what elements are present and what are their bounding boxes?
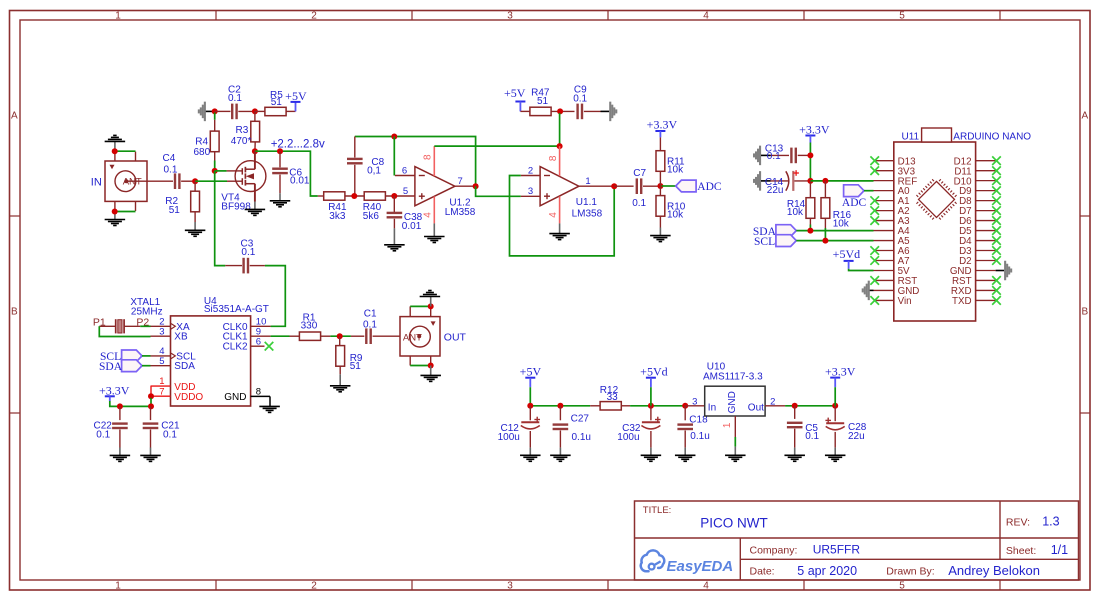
svg-text:+3.3V: +3.3V	[825, 364, 856, 378]
net flag ADC	[676, 180, 696, 192]
svg-text:0.1: 0.1	[163, 430, 177, 441]
wire	[124, 325, 140, 327]
svg-text:LM358: LM358	[572, 208, 603, 219]
wire	[269, 396, 271, 406]
wire	[142, 365, 151, 367]
svg-text:4: 4	[548, 212, 559, 218]
svg-text:3k3: 3k3	[329, 211, 346, 222]
wire	[393, 196, 395, 213]
wire	[824, 181, 826, 198]
svg-text:+3.3V: +3.3V	[99, 384, 130, 398]
wire	[195, 180, 227, 182]
wire	[476, 186, 521, 196]
ground below C18	[675, 454, 696, 456]
chassis ground left of C2	[204, 102, 206, 122]
chassis ground left of C13	[759, 146, 761, 166]
svg-text:7: 7	[457, 176, 462, 187]
svg-text:Vin: Vin	[898, 296, 912, 307]
wire	[150, 386, 152, 396]
pin 8 GND	[251, 395, 270, 397]
ground below C32	[641, 454, 662, 456]
pin 6 CLK2	[251, 345, 265, 347]
pin 1 VDD	[151, 385, 171, 387]
capacitor C1	[365, 328, 367, 344]
ground below C6	[270, 200, 291, 202]
capacitor C14 polarized	[786, 171, 789, 190]
wire	[271, 335, 290, 337]
svg-text:5: 5	[159, 356, 164, 367]
node junction	[212, 108, 218, 114]
wire	[834, 387, 836, 406]
wire	[290, 335, 300, 337]
wire	[215, 170, 227, 172]
connector IN (antenna jack)	[105, 161, 147, 201]
ground below C22	[110, 454, 130, 456]
op-amp U1.1 LM358	[540, 167, 579, 206]
svg-text:0.1: 0.1	[96, 430, 110, 441]
node junction	[252, 108, 258, 114]
frame zone tick marks	[215, 11, 217, 21]
wire	[630, 405, 685, 407]
ground stem above IN	[114, 141, 116, 151]
resistor R5	[265, 107, 286, 115]
svg-text:IN: IN	[91, 177, 102, 189]
EasyEDA logo	[641, 550, 665, 571]
wire	[834, 406, 836, 421]
wire	[373, 335, 419, 337]
svg-text:BF998: BF998	[221, 201, 251, 212]
svg-text:22u: 22u	[848, 431, 865, 442]
wire	[529, 431, 531, 448]
wire top feedback rail	[355, 137, 476, 187]
wire	[194, 212, 196, 222]
pin 3 of U1.1	[521, 195, 540, 197]
svg-text:5: 5	[899, 581, 905, 592]
svg-text:2: 2	[528, 166, 533, 177]
chassis ground at GND left pin	[868, 281, 870, 301]
wire	[339, 336, 341, 345]
node junction	[192, 178, 198, 184]
svg-text:8: 8	[423, 154, 434, 160]
ground stem below C32	[650, 448, 652, 456]
node junction	[807, 228, 813, 234]
svg-text:6: 6	[402, 166, 407, 177]
wire	[684, 431, 686, 448]
wire	[351, 335, 364, 337]
node junction	[807, 152, 813, 158]
wire	[559, 431, 561, 448]
pin 5 SDA	[151, 365, 171, 367]
wire	[761, 154, 771, 156]
wire REF net	[810, 180, 873, 182]
ground stem above OUT	[430, 297, 432, 307]
svg-text:0.1: 0.1	[228, 93, 242, 104]
wire	[659, 171, 661, 186]
wire	[225, 265, 242, 267]
ground stem below C38	[393, 228, 395, 244]
svg-text:Out: Out	[748, 402, 764, 413]
title block frame	[635, 501, 1079, 580]
power +5Vd at C32	[646, 377, 656, 379]
svg-text:Drawn By:: Drawn By:	[886, 566, 934, 578]
pin 9 CLK1	[251, 335, 271, 337]
wire	[354, 137, 356, 158]
wire	[150, 398, 152, 407]
wire	[794, 406, 796, 419]
ground above IN	[105, 140, 126, 142]
svg-text:+3.3V: +3.3V	[799, 122, 830, 136]
svg-text:C27: C27	[571, 413, 590, 424]
svg-text:3: 3	[507, 581, 513, 592]
wire	[354, 165, 356, 196]
svg-text:0.1: 0.1	[164, 165, 178, 176]
svg-text:SCL: SCL	[754, 236, 775, 248]
wire	[115, 150, 136, 152]
ground below U1.1	[549, 233, 570, 235]
node junction	[832, 403, 838, 409]
svg-text:0.1: 0.1	[767, 151, 781, 162]
power +3.3V at R11	[655, 130, 665, 132]
wire feedback loop	[510, 176, 615, 256]
wire	[214, 161, 216, 171]
svg-text:XB: XB	[174, 332, 188, 343]
svg-text:EasyEDA: EasyEDA	[667, 558, 734, 575]
wire	[99, 326, 150, 336]
wire	[659, 216, 661, 227]
wire	[254, 142, 256, 151]
svg-text:GND: GND	[224, 392, 246, 403]
capacitor C6	[272, 168, 288, 170]
wire	[345, 195, 365, 197]
wire	[214, 113, 216, 120]
wire	[140, 325, 150, 327]
svg-text:SDA: SDA	[99, 361, 123, 373]
integrated circuit U4 Si5351A body	[171, 316, 251, 406]
capacitor C8	[347, 158, 363, 160]
svg-text:1/1: 1/1	[1051, 543, 1068, 557]
svg-text:5: 5	[899, 11, 905, 22]
wire	[996, 270, 1005, 272]
svg-text:Sheet:: Sheet:	[1006, 545, 1036, 557]
power +5V at C12	[525, 377, 535, 379]
wire	[621, 405, 630, 407]
svg-text:5k6: 5k6	[363, 211, 380, 222]
power +5Vd at 5V pin	[844, 260, 854, 262]
ground below OUT	[420, 374, 441, 376]
resistor R2	[191, 191, 200, 212]
capacitor C38	[387, 212, 403, 214]
wire	[785, 405, 835, 407]
pin 3 XB	[151, 335, 171, 337]
node junction	[148, 393, 154, 399]
capacitor C32 polarized	[642, 421, 660, 423]
pin 10 CLK0	[251, 325, 271, 327]
wire	[529, 387, 531, 406]
svg-text:0.01: 0.01	[290, 176, 310, 187]
node junction	[428, 303, 434, 309]
ground below C38	[384, 244, 405, 246]
svg-text:8: 8	[548, 155, 559, 161]
capacitor C18	[677, 423, 693, 425]
wire	[206, 110, 215, 112]
chassis ground left of C14	[759, 171, 761, 191]
wire	[181, 180, 195, 182]
wire	[393, 137, 395, 176]
node junction	[391, 193, 397, 199]
wire	[385, 195, 415, 197]
svg-text:Andrey Belokon: Andrey Belokon	[948, 563, 1040, 578]
resistor R11	[656, 151, 665, 172]
resistor R47	[530, 107, 551, 115]
svg-text:ANT: ANT	[403, 332, 422, 343]
pin 1 of U1.1	[579, 185, 612, 187]
capacitor C2	[231, 104, 233, 120]
wire	[685, 405, 705, 407]
ground stem below C21	[150, 448, 152, 456]
wire	[194, 181, 196, 191]
node junction	[557, 108, 563, 114]
svg-text:10k: 10k	[667, 209, 684, 220]
svg-text:Si5351A-A-GT: Si5351A-A-GT	[204, 304, 269, 315]
wire	[530, 405, 590, 407]
resistor R40	[364, 192, 385, 200]
node junction	[117, 403, 123, 409]
svg-text:ADC: ADC	[697, 181, 722, 193]
svg-text:0.1u: 0.1u	[690, 431, 709, 442]
ground below C21	[140, 454, 161, 456]
ground stem below IN	[114, 212, 116, 220]
ground below IN	[105, 219, 126, 221]
wire	[238, 110, 255, 112]
svg-text:0,1: 0,1	[367, 166, 381, 177]
node junction	[252, 148, 258, 154]
capacitor C21	[143, 422, 159, 424]
svg-text:TITLE:: TITLE:	[643, 505, 672, 516]
wire	[410, 365, 431, 367]
node junction	[611, 183, 617, 189]
node junction	[212, 168, 218, 174]
resistor R16	[821, 198, 830, 219]
wire	[662, 185, 676, 187]
svg-text:+5V: +5V	[285, 89, 307, 103]
svg-text:6: 6	[256, 336, 261, 347]
ground stem below C6	[279, 193, 281, 201]
svg-text:51: 51	[169, 205, 181, 216]
no-connect X at CLK2	[265, 342, 274, 351]
svg-text:LM358: LM358	[445, 207, 476, 218]
wire	[255, 110, 265, 112]
node junction	[277, 148, 283, 154]
voltage regulator U10 AMS1117-3.3	[705, 386, 765, 416]
pin 4 SCL	[151, 355, 171, 357]
wire	[214, 152, 216, 161]
svg-text:CLK2: CLK2	[223, 342, 248, 353]
power +3.3V at U4	[105, 395, 115, 397]
ground stem below R2	[194, 222, 196, 230]
pin 8 of U1.2	[433, 146, 435, 176]
wire	[849, 269, 874, 271]
svg-text:7: 7	[159, 386, 164, 397]
op-amp U1.2 LM358	[415, 167, 455, 206]
svg-text:Company:: Company:	[750, 544, 798, 556]
svg-text:PICO NWT: PICO NWT	[700, 515, 768, 530]
svg-text:3: 3	[528, 186, 533, 197]
svg-text:TXD: TXD	[952, 296, 972, 307]
svg-text:2: 2	[311, 581, 317, 592]
resistor R41	[324, 192, 345, 200]
wire	[215, 110, 231, 112]
svg-text:+5V: +5V	[504, 86, 526, 100]
node junction	[337, 333, 343, 339]
ground below U4 GND pin	[259, 405, 280, 407]
wire	[794, 180, 810, 182]
wire	[864, 190, 874, 192]
wire	[650, 387, 652, 406]
svg-text:0.1: 0.1	[573, 93, 587, 104]
wire	[771, 180, 790, 182]
crystal XTAL1	[115, 319, 117, 333]
resistor R14	[806, 198, 815, 219]
node junction	[112, 148, 118, 154]
U11 right pins D12-TXD	[976, 160, 996, 162]
svg-text:22u: 22u	[767, 185, 784, 196]
svg-text:0.1: 0.1	[632, 198, 646, 209]
wire	[809, 143, 811, 181]
wire	[393, 219, 395, 229]
svg-text:2: 2	[311, 11, 317, 22]
wire	[796, 240, 873, 242]
svg-text:51: 51	[350, 361, 362, 372]
power +5V at R47	[515, 101, 525, 103]
svg-text:C7: C7	[633, 168, 646, 179]
wire	[650, 431, 652, 448]
node junction	[112, 209, 118, 215]
svg-text:0.1u: 0.1u	[572, 432, 591, 443]
wire	[551, 110, 574, 112]
capacitor C7	[636, 178, 638, 194]
ground below U1.2	[424, 236, 445, 238]
wire	[119, 406, 121, 420]
pin 4 of U1.1	[559, 196, 561, 223]
svg-text:AMS1117-3.3: AMS1117-3.3	[703, 371, 763, 382]
wire	[339, 366, 341, 374]
capacitor C28 polarized	[826, 422, 844, 424]
wire	[215, 171, 226, 266]
ground below C28	[825, 454, 846, 456]
wire	[643, 185, 660, 187]
node junction	[557, 403, 563, 409]
svg-text:B: B	[1081, 307, 1088, 318]
ground stem below U10	[734, 447, 736, 456]
ground stem below C18	[684, 448, 686, 456]
svg-text:R4: R4	[195, 136, 208, 147]
net flag SCL at U4	[122, 350, 142, 362]
node junction	[682, 403, 688, 409]
ground stem below U1.2	[433, 223, 435, 236]
wire	[834, 432, 836, 448]
node junction	[351, 193, 357, 199]
svg-text:ARDUINO NANO: ARDUINO NANO	[953, 132, 1031, 143]
wire	[520, 110, 529, 112]
svg-text:Date:: Date:	[750, 566, 775, 578]
wire	[279, 151, 281, 167]
svg-text:C1: C1	[364, 309, 377, 320]
wire	[559, 113, 561, 146]
svg-text:4: 4	[703, 581, 709, 592]
ground below R9	[330, 385, 351, 387]
svg-text:33: 33	[607, 392, 619, 403]
net flag ADC at A0	[844, 185, 864, 197]
pin 8 of U1.1	[559, 146, 561, 176]
wire	[870, 289, 874, 291]
wire	[584, 110, 601, 112]
wire	[279, 175, 281, 194]
wire	[318, 195, 324, 197]
wire	[559, 406, 561, 421]
node junction	[148, 403, 154, 409]
transistor VT4 BF998	[235, 161, 266, 192]
power +5V at R5	[295, 102, 297, 111]
net flag SCL	[776, 235, 796, 247]
svg-text:A: A	[11, 111, 18, 122]
ground stem below C28	[834, 448, 836, 456]
wire	[590, 405, 600, 407]
power +3.3V at C28	[830, 377, 840, 379]
resistor R12	[600, 402, 621, 410]
pin 2 of U1.1	[521, 175, 540, 177]
svg-text:3: 3	[692, 397, 697, 408]
wire	[734, 437, 736, 447]
wire	[529, 406, 531, 421]
svg-text:1.3: 1.3	[1042, 515, 1059, 529]
capacitor C4	[174, 173, 176, 189]
node junction	[527, 403, 533, 409]
power +3.3V at C13	[805, 135, 815, 137]
wire	[119, 430, 121, 448]
ground below VT4	[245, 208, 266, 210]
node junction	[657, 183, 663, 189]
svg-text:SDA: SDA	[174, 361, 195, 372]
pin 2 Out of U10	[765, 405, 785, 407]
U11 left pins D13-Vin	[874, 160, 894, 162]
svg-text:+5Vd: +5Vd	[640, 364, 667, 378]
chassis ground right of C9	[609, 102, 611, 122]
svg-text:330: 330	[301, 321, 318, 332]
wire	[650, 406, 652, 421]
svg-text:GND: GND	[727, 391, 738, 413]
svg-text:4: 4	[423, 212, 434, 218]
svg-text:2: 2	[770, 397, 775, 408]
wire	[265, 266, 285, 327]
pin 7 VDDO	[151, 395, 171, 397]
ground below C27	[550, 454, 571, 456]
wire	[99, 325, 115, 327]
wire +2.2v net	[255, 151, 318, 196]
node junction	[428, 363, 434, 369]
pin 7 of U1.2	[455, 185, 473, 187]
wire	[150, 406, 152, 420]
wire	[684, 406, 686, 421]
ground below U10	[725, 454, 746, 456]
wire	[794, 429, 796, 448]
wire	[330, 335, 351, 337]
node junction	[822, 178, 828, 184]
connector OUT (antenna jack)	[400, 317, 440, 356]
svg-text:10k: 10k	[787, 207, 804, 218]
capacitor C12 polarized	[521, 421, 539, 423]
svg-text:4: 4	[703, 11, 709, 22]
wire	[798, 154, 811, 156]
